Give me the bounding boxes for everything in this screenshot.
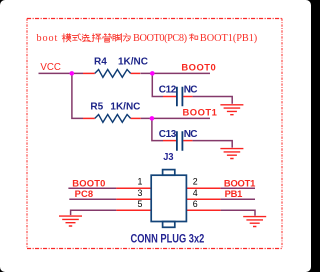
wire R5 out / BOOT1 stub [141, 117, 210, 119]
wire pin4 to PB1 [221, 198, 255, 200]
wire pin5 to ground [71, 210, 117, 215]
svg-text:R5: R5 [90, 101, 103, 112]
wire BOOT0 to pin1 [68, 187, 116, 189]
wire vertical VCC junction down to R5 row [72, 73, 83, 118]
为 [123, 34, 130, 42]
pin J3-4 [186, 198, 220, 200]
svg-text:J3: J3 [163, 152, 174, 164]
pin J3-1 [116, 187, 151, 189]
node BOOT1 junction [150, 116, 155, 121]
connector body [151, 170, 186, 228]
wire pin6 to ground [221, 210, 255, 216]
wire C13 out to ground [192, 141, 232, 148]
CJK glyphs hand-drawn: 模式选择管脚为 + 和 [62, 34, 198, 42]
svg-text:2: 2 [193, 177, 198, 187]
svg-text:VCC: VCC [40, 62, 60, 73]
pin C12 left [163, 96, 176, 98]
svg-text:PB1: PB1 [225, 188, 243, 199]
svg-text:4: 4 [193, 188, 198, 198]
svg-text:C12: C12 [159, 85, 177, 96]
pin J3-6 [186, 209, 220, 211]
svg-text:1: 1 [138, 177, 143, 187]
svg-text:R4: R4 [94, 57, 107, 68]
pin R4 right [131, 72, 141, 74]
ground C13 [220, 149, 243, 159]
模 [62, 34, 71, 42]
wire pin2 to BOOT1 [221, 187, 255, 189]
wire junction A down to C12 [152, 73, 163, 96]
wire VCC feed [39, 72, 84, 74]
pin R4 left [83, 72, 95, 74]
svg-text:BOOT0: BOOT0 [72, 177, 105, 188]
svg-text:NC: NC [184, 129, 197, 140]
resistor R4 [95, 70, 131, 78]
svg-text:BOOT0: BOOT0 [181, 61, 216, 72]
capacitor C13 [177, 131, 183, 151]
pin R5 right [131, 117, 141, 119]
svg-text:C13: C13 [159, 129, 177, 140]
svg-text:NC: NC [184, 85, 197, 96]
wire C12 out to ground [192, 97, 232, 104]
resistor R5 [95, 115, 131, 123]
pin J3-2 [186, 187, 220, 189]
svg-text:5: 5 [138, 199, 143, 209]
svg-text:CONN PLUG 3x2: CONN PLUG 3x2 [131, 232, 205, 245]
title text: boot 模式选择管脚为BOOT0(PC8)和BOOT1(PB1) [37, 33, 258, 44]
wire PC8 to pin3 [69, 198, 116, 200]
svg-text:boot: boot [37, 33, 59, 44]
pin R5 left [83, 117, 95, 119]
pin J3-3 [116, 198, 151, 200]
svg-text:BOOT1: BOOT1 [224, 177, 255, 188]
svg-text:3: 3 [138, 188, 143, 198]
ground left (pin5) [59, 216, 82, 226]
pin J3-5 [116, 209, 151, 211]
node VCC junction [70, 71, 75, 76]
svg-text:6: 6 [193, 199, 198, 209]
ground right (pin6) [243, 217, 266, 227]
脚 [113, 34, 121, 42]
svg-text:1K/NC: 1K/NC [110, 101, 140, 112]
svg-text:BOOT1: BOOT1 [183, 107, 218, 118]
ground C12 [220, 105, 243, 115]
择 [92, 34, 101, 42]
式 [72, 34, 81, 41]
wire R4 out to junction/BOOT0 stub [141, 72, 211, 74]
和 [189, 34, 197, 41]
选 [82, 34, 91, 42]
管 [103, 34, 111, 42]
svg-text:BOOT0(PC8): BOOT0(PC8) [133, 33, 187, 44]
pin C13 right [183, 140, 192, 142]
svg-text:PC8: PC8 [75, 188, 94, 199]
svg-text:BOOT1(PB1): BOOT1(PB1) [200, 33, 257, 44]
node BOOT0 junction [150, 71, 155, 76]
wire junction C down to C13 [152, 118, 163, 140]
svg-text:1K/NC: 1K/NC [118, 57, 148, 68]
pin C12 right [183, 96, 192, 98]
capacitor C12 [177, 87, 183, 107]
sheet border (red dash-dot) [27, 19, 282, 249]
pin C13 left [163, 140, 176, 142]
